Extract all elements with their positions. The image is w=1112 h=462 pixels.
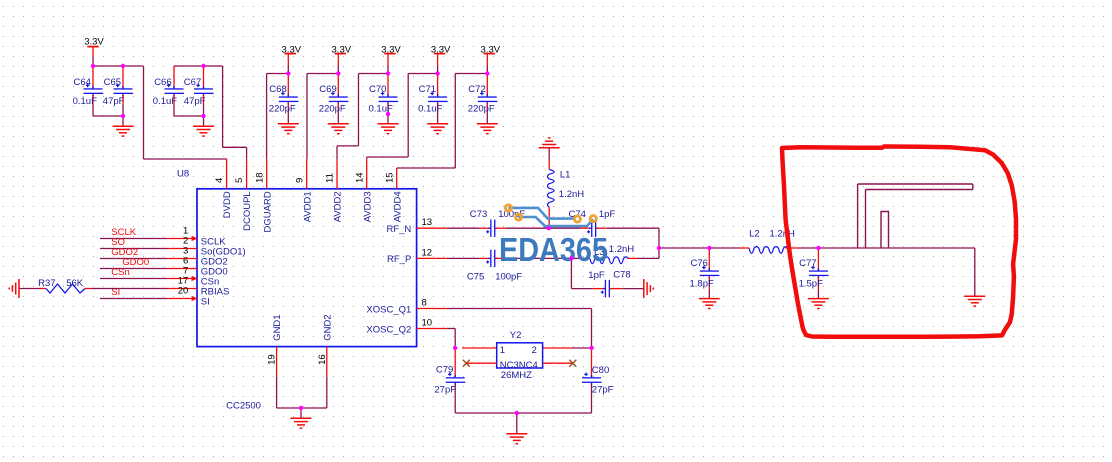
- ground under crystal: [506, 434, 527, 444]
- svg-text:1.2nH: 1.2nH: [559, 189, 584, 200]
- svg-text:C72: C72: [468, 84, 485, 95]
- svg-text:R37: R37: [38, 278, 55, 289]
- pin 1 SCLK stub: [167, 236, 198, 241]
- wire net CSn: [100, 278, 167, 280]
- wire C78 to ground: [622, 288, 644, 290]
- svg-text:56K: 56K: [66, 278, 84, 289]
- svg-text:C78: C78: [613, 270, 630, 281]
- inductor L3 1.2nH: [571, 244, 638, 263]
- node junction at C70 top: [386, 71, 390, 75]
- svg-text:L1: L1: [560, 170, 571, 181]
- wire net SCLK: [100, 238, 167, 240]
- pin 8 XOSC_Q1 stub: [417, 308, 447, 310]
- pin 16 GND2 stub: [326, 347, 328, 377]
- svg-text:C68: C68: [269, 84, 286, 95]
- capacitor C75 100pF: [467, 250, 522, 283]
- wire ground to L1: [548, 148, 550, 160]
- power symbol 3.3V (C72 rail): [481, 44, 501, 65]
- wire C74 to balun corner: [607, 228, 659, 258]
- pin 3 GDO2 stub: [167, 258, 197, 260]
- power symbol 3.3V (C71 rail): [431, 44, 451, 65]
- wire RF_N to C73: [447, 227, 480, 229]
- svg-text:220pF: 220pF: [269, 104, 296, 115]
- svg-text:1.8pF: 1.8pF: [690, 278, 714, 289]
- power symbol 3.3V (C68 rail): [282, 44, 302, 65]
- svg-text:18: 18: [254, 172, 265, 183]
- svg-text:AVDD4: AVDD4: [392, 191, 403, 222]
- svg-text:47pF: 47pF: [103, 96, 125, 107]
- svg-text:12: 12: [422, 247, 433, 258]
- svg-text:20: 20: [178, 285, 189, 296]
- svg-text:C67: C67: [184, 77, 201, 88]
- ground under C71: [427, 124, 448, 134]
- svg-text:GND2: GND2: [322, 314, 333, 340]
- wire L3 to balun corner: [638, 257, 659, 259]
- ground above L1 (rotated up): [539, 138, 560, 148]
- capacitor C70 0.1uF: [369, 74, 399, 124]
- wire L2 to antenna feed: [800, 247, 975, 249]
- pin 6 GDO0 stub: [167, 268, 197, 270]
- capacitor C78 1pF: [588, 270, 630, 298]
- wire C75 to C78 node: [506, 257, 571, 259]
- wire XOSC_Q1 to C80: [447, 309, 592, 349]
- wire C64/C65 bottoms to ground: [93, 105, 123, 126]
- capacitor C67 47pF: [184, 66, 214, 107]
- op-amp; IC U8 CC2500 body: [197, 189, 417, 347]
- svg-text:C80: C80: [592, 365, 609, 376]
- svg-text:1pF: 1pF: [588, 270, 605, 281]
- svg-text:RF_N: RF_N: [386, 224, 411, 235]
- svg-text:13: 13: [422, 217, 433, 228]
- svg-text:C76: C76: [691, 258, 708, 269]
- wire net SO: [100, 248, 167, 250]
- svg-text:C70: C70: [369, 84, 386, 95]
- power symbol 3.3V (C69 rail): [332, 44, 352, 65]
- svg-text:1: 1: [500, 345, 505, 356]
- node junction at C67 top: [201, 64, 205, 68]
- capacitor C74 1pF: [569, 209, 616, 237]
- svg-text:0.1uF: 0.1uF: [418, 104, 442, 115]
- node junction at C80: [589, 346, 593, 350]
- wire crystal bottom net: [455, 413, 591, 434]
- svg-text:26MHZ: 26MHZ: [501, 370, 532, 381]
- svg-text:5: 5: [234, 178, 245, 183]
- pin 13 RF_N stub: [417, 227, 447, 229]
- pin 14 AVDD3 stub: [366, 159, 368, 189]
- svg-text:DVDD: DVDD: [222, 191, 233, 218]
- wire RBIAS net: [19, 288, 167, 290]
- pin 15 AVDD4 stub: [396, 168, 398, 189]
- svg-text:L2: L2: [749, 229, 760, 240]
- pin 10 XOSC_Q2 stub: [417, 328, 447, 330]
- ground under C65: [113, 126, 134, 136]
- wire crystal pin 1: [462, 347, 497, 349]
- inductor L2 1.2nH: [740, 229, 800, 254]
- capacitor C73 100pF: [470, 209, 526, 237]
- svg-text:1pF: 1pF: [599, 209, 616, 220]
- ground under C69: [328, 124, 349, 134]
- svg-text:10: 10: [422, 318, 433, 329]
- pin 18 DGUARD stub: [266, 159, 268, 189]
- wire DCOUPL net across C66/C67 to pin 5: [174, 66, 247, 159]
- node DVDD junction at C64: [91, 64, 95, 68]
- capacitor C64 0.1uF: [73, 66, 104, 107]
- wire C72 rail to IC pin: [397, 66, 488, 169]
- capacitor C69 220pF: [319, 74, 349, 124]
- pin 20 SI stub: [167, 296, 198, 301]
- svg-text:220pF: 220pF: [468, 104, 495, 115]
- node junction at C72 top: [485, 71, 489, 75]
- wire C78 branch: [571, 258, 592, 288]
- svg-text:SI: SI: [201, 297, 210, 308]
- wire DVDD rail: 3.3V node across C64/C65 to pin 4: [93, 56, 227, 159]
- ground under C76: [699, 299, 720, 309]
- node junction under C67: [201, 114, 205, 118]
- svg-text:16: 16: [317, 354, 328, 365]
- wire crystal pin 2: [543, 347, 572, 349]
- svg-text:C75: C75: [467, 271, 484, 282]
- node junction at C76: [707, 246, 711, 250]
- node junction GND net: [299, 406, 303, 410]
- capacitor C65 47pF: [103, 66, 133, 107]
- pin 19 GND1 stub: [276, 347, 278, 377]
- node junction at C69 top: [336, 71, 340, 75]
- ground under C68: [278, 124, 299, 134]
- node junction C78 branch: [569, 256, 573, 260]
- wire C71 rail to IC pin: [367, 66, 438, 159]
- svg-text:C66: C66: [154, 77, 171, 88]
- wire antenna to ground: [974, 248, 976, 296]
- watermark EDA365 logo traces: [508, 208, 593, 226]
- capacitor C71 0.1uF: [418, 74, 448, 124]
- inductor L1 1.2nH: [548, 160, 585, 229]
- svg-text:2: 2: [532, 345, 537, 356]
- svg-text:C65: C65: [104, 77, 121, 88]
- crystal Y2 26MHZ: [497, 330, 543, 381]
- svg-text:DCOUPL: DCOUPL: [242, 191, 253, 231]
- svg-text:XOSC_Q2: XOSC_Q2: [366, 324, 411, 335]
- capacitor C66 0.1uF: [153, 66, 184, 107]
- node junction at C77: [816, 246, 820, 250]
- node junction at C68 top: [286, 71, 290, 75]
- pin 12 RF_P stub: [417, 257, 447, 259]
- svg-text:47pF: 47pF: [184, 96, 206, 107]
- wire net GDO0: [100, 268, 167, 270]
- svg-text:C69: C69: [319, 84, 336, 95]
- svg-text:C71: C71: [419, 84, 436, 95]
- svg-text:C79: C79: [436, 364, 453, 375]
- svg-text:4: 4: [214, 178, 225, 183]
- node junction crystal ground: [515, 411, 519, 415]
- capacitor C76 1.8pF: [690, 248, 720, 299]
- node DVDD junction at C65: [121, 64, 125, 68]
- svg-text:C77: C77: [799, 258, 816, 269]
- wire C69 rail to IC pin: [307, 66, 338, 159]
- svg-text:RF_P: RF_P: [387, 254, 411, 265]
- annotation red freehand loop: [782, 147, 1016, 337]
- watermark EDA365 pads: [505, 205, 596, 222]
- svg-text:C73: C73: [470, 209, 487, 220]
- svg-text:11: 11: [325, 173, 336, 183]
- wire C73 to L1 node: [506, 227, 549, 229]
- svg-text:9: 9: [294, 178, 305, 183]
- pin 7 CSn stub: [167, 276, 198, 281]
- ground at C78 (rotated right): [644, 279, 654, 298]
- svg-text:27pF: 27pF: [592, 384, 614, 395]
- ground at antenna: [964, 296, 985, 306]
- pin 17 RBIAS stub: [167, 288, 197, 290]
- ground at R37 (rotated left): [9, 279, 19, 298]
- power symbol 3.3V (C70 rail): [381, 44, 401, 65]
- capacitor C77 1.5pF: [799, 248, 829, 299]
- wire GND1/GND2 to ground: [277, 377, 327, 419]
- wire RF_P to C75: [447, 257, 480, 259]
- ground under C67: [193, 126, 214, 136]
- wire output line to L2: [659, 247, 740, 249]
- svg-text:AVDD1: AVDD1: [302, 191, 313, 222]
- svg-text:GND1: GND1: [272, 314, 283, 340]
- svg-text:CSn: CSn: [111, 267, 129, 278]
- wire C70 rail to IC pin: [337, 66, 388, 159]
- wire C66/C67 bottoms to ground: [174, 105, 204, 126]
- svg-text:19: 19: [267, 354, 278, 365]
- pin 5 DCOUPL stub: [246, 159, 248, 189]
- ground under C77: [808, 299, 829, 309]
- wire net GDO2: [100, 258, 167, 260]
- svg-text:27pF: 27pF: [434, 384, 456, 395]
- svg-text:100pF: 100pF: [495, 271, 522, 282]
- svg-text:1.5pF: 1.5pF: [799, 278, 823, 289]
- svg-text:AVDD2: AVDD2: [333, 191, 344, 222]
- no-connect NC3 wire and X: [463, 360, 497, 367]
- wire crystal pin 2 stub: [572, 347, 592, 349]
- svg-text:CC2500: CC2500: [226, 400, 261, 411]
- capacitor C72 220pF: [468, 74, 498, 124]
- pin 2 So(GDO1) stub: [167, 248, 197, 250]
- node junction at C71 top: [435, 71, 439, 75]
- node junction RF output: [657, 246, 661, 250]
- pin 4 DVDD stub: [226, 159, 228, 189]
- wire net SI: [100, 298, 167, 300]
- no-connect NC4 wire and X: [543, 360, 577, 367]
- svg-text:220pF: 220pF: [319, 104, 346, 115]
- ground under C70: [378, 124, 399, 134]
- svg-text:U8: U8: [177, 168, 189, 179]
- wire C68 rail to IC pin: [267, 66, 289, 159]
- node stray junction under C70: [386, 112, 390, 116]
- svg-text:1.2nH: 1.2nH: [609, 244, 634, 255]
- svg-text:XOSC_Q1: XOSC_Q1: [366, 304, 411, 315]
- node junction under C65: [121, 114, 125, 118]
- node junction L1/RF_N: [547, 226, 551, 230]
- node junction at C79: [453, 346, 457, 350]
- antenna PCB trace drawing: [858, 184, 973, 248]
- svg-text:EDA365: EDA365: [499, 231, 608, 268]
- svg-text:DGUARD: DGUARD: [262, 191, 273, 232]
- svg-text:Y2: Y2: [510, 330, 522, 341]
- capacitor C68 220pF: [269, 74, 299, 124]
- capacitor C79 27pF: [434, 348, 465, 413]
- resistor R37 56K: [38, 278, 91, 293]
- svg-text:14: 14: [354, 172, 365, 183]
- wire XOSC_Q2 to C79: [447, 329, 456, 349]
- ground under C72: [477, 124, 498, 134]
- pin 11 AVDD2 stub: [336, 159, 338, 189]
- power symbol 3.3V (DVDD rail): [84, 37, 104, 57]
- svg-text:8: 8: [422, 298, 427, 309]
- ground under IC: [291, 418, 312, 428]
- svg-text:C64: C64: [74, 77, 91, 88]
- capacitor C80 27pF: [582, 348, 614, 413]
- pin 9 AVDD1 stub: [306, 159, 308, 189]
- svg-text:15: 15: [384, 172, 395, 183]
- svg-text:AVDD3: AVDD3: [362, 191, 373, 222]
- svg-text:1.2nH: 1.2nH: [770, 229, 795, 240]
- wire node to C74: [549, 227, 580, 229]
